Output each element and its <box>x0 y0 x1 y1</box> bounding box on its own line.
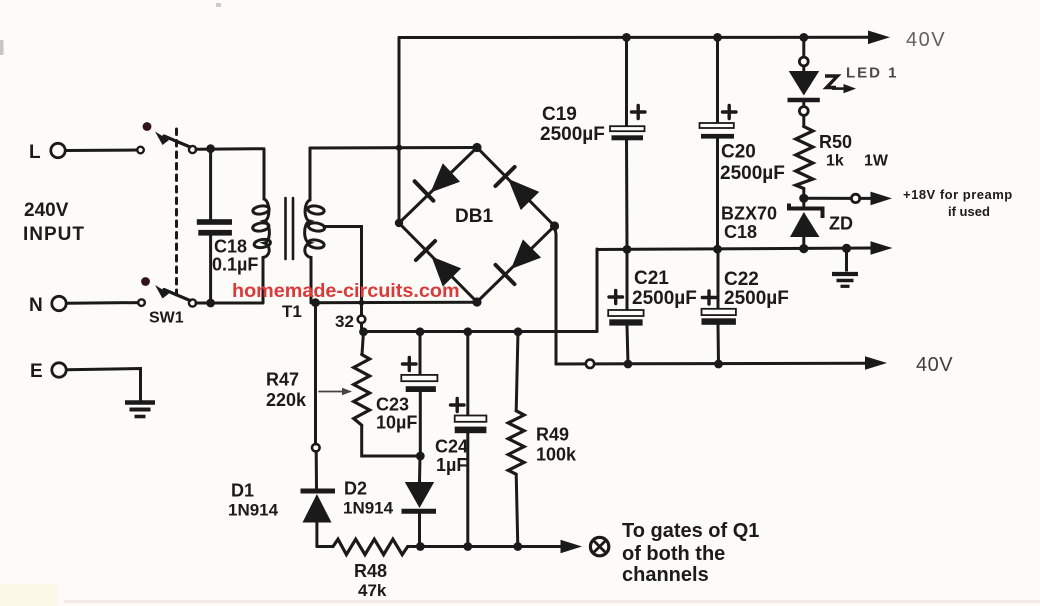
LED bottom terminal circle <box>799 107 808 116</box>
resistor R47 <box>266 327 421 456</box>
top rail 40V <box>399 36 869 39</box>
svg-text:channels: channels <box>622 564 709 586</box>
LED emission arrows <box>825 76 856 93</box>
node C18 bottom <box>206 299 215 308</box>
lower rail 40V <box>556 360 866 369</box>
capacitor C21 <box>608 250 697 365</box>
arrow output <box>561 540 583 554</box>
svg-text:C20: C20 <box>721 142 756 163</box>
switch SW1 pole L <box>137 122 196 153</box>
wire D1 branch <box>314 303 317 444</box>
label To gates of Q1 <box>622 520 759 586</box>
svg-text:0.1µF: 0.1µF <box>212 255 258 275</box>
wire crossing blob centre tap <box>359 300 365 306</box>
wire DC+ riser x399 <box>396 38 402 224</box>
capacitor C18 <box>197 149 259 303</box>
wire secondary bottom to bridge bottom <box>311 301 477 304</box>
svg-text:D1: D1 <box>231 481 254 501</box>
svg-text:C21: C21 <box>634 268 669 289</box>
svg-text:2500µF: 2500µF <box>724 288 789 309</box>
zener diode ZD BZX70 <box>721 204 853 250</box>
svg-text:ZD: ZD <box>829 214 853 234</box>
LED LED1 <box>788 65 899 107</box>
svg-text:LED 1: LED 1 <box>846 65 899 82</box>
capacitor C24 <box>435 327 486 546</box>
svg-text:1N914: 1N914 <box>228 501 279 520</box>
bridge diode top-right <box>495 167 539 210</box>
svg-text:2500µF: 2500µF <box>632 288 697 309</box>
svg-text:of both the: of both the <box>622 543 725 565</box>
svg-text:D2: D2 <box>344 479 367 499</box>
svg-text:1µF: 1µF <box>436 455 467 475</box>
terminal circle lower rail <box>586 360 594 368</box>
svg-text:homemade-circuits.com: homemade-circuits.com <box>232 280 460 302</box>
diode D1 <box>228 452 335 547</box>
switch linkage dashed <box>175 129 178 295</box>
svg-text:1N914: 1N914 <box>343 499 394 518</box>
LED1 branch wire <box>802 38 805 58</box>
+18V terminal circle <box>851 194 859 202</box>
diode D2 <box>343 456 436 547</box>
ground (E) <box>125 403 155 417</box>
svg-text:40V: 40V <box>906 29 946 51</box>
ground (0V rail) <box>832 248 858 286</box>
svg-text:240V: 240V <box>24 200 69 221</box>
node zener mid rail <box>799 244 808 253</box>
svg-text:220k: 220k <box>266 390 307 410</box>
svg-text:C18: C18 <box>724 222 757 242</box>
label 240V INPUT <box>23 200 85 245</box>
wire N to switch <box>67 301 139 305</box>
bridge diode bottom-left <box>416 241 461 287</box>
output terminal circle-X <box>590 537 608 555</box>
arrow R47 pointer <box>319 388 352 396</box>
capacitor C23 <box>376 327 437 460</box>
svg-text:L: L <box>29 142 41 163</box>
svg-text:47k: 47k <box>358 581 387 600</box>
svg-text:C24: C24 <box>435 437 468 457</box>
wire DC- drop x556 <box>555 226 557 364</box>
resistor R50 <box>796 115 889 206</box>
wire node32 to rail <box>362 323 598 332</box>
node 32 terminal <box>335 312 365 331</box>
svg-text:E: E <box>30 361 43 382</box>
svg-text:40V: 40V <box>916 354 953 376</box>
svg-text:T1: T1 <box>282 302 302 321</box>
bridge diode bottom-right <box>496 239 542 284</box>
secondary centre tap wire <box>324 227 362 316</box>
capacitor C20 <box>700 38 785 250</box>
+18V arrow <box>860 192 892 206</box>
svg-text:if used: if used <box>948 204 990 219</box>
transformer T1 secondary <box>305 148 326 303</box>
capacitor C19 <box>540 38 645 250</box>
terminal E <box>30 361 66 382</box>
+18V tap wire <box>804 197 850 200</box>
LED1 top terminal circle <box>799 57 808 66</box>
svg-text:C18: C18 <box>214 237 247 257</box>
svg-text:+18V for preamp: +18V for preamp <box>903 187 1013 202</box>
svg-text:2500µF: 2500µF <box>720 163 785 184</box>
svg-text:1k: 1k <box>826 153 844 170</box>
svg-text:BZX70: BZX70 <box>721 204 777 224</box>
switch SW1 pole N <box>138 277 196 326</box>
node C18 top <box>206 144 215 153</box>
output wire to gates <box>408 542 562 551</box>
arrow top rail <box>868 31 890 45</box>
svg-text:DB1: DB1 <box>455 206 493 227</box>
node mid rail x717 <box>713 245 722 254</box>
wire E to ground <box>67 369 141 401</box>
node top rail x717 <box>713 33 722 42</box>
node ground tap <box>842 244 851 253</box>
middle rail 0V <box>597 248 871 250</box>
label +18V for preamp <box>903 187 1013 219</box>
label 40V bottom <box>916 354 953 376</box>
transformer core <box>286 198 294 259</box>
wire switch to C18 top node <box>196 147 263 151</box>
arrow middle rail <box>871 241 893 255</box>
wire switch N to primary bottom <box>196 302 263 305</box>
node top rail x627 <box>622 33 631 42</box>
svg-text:C22: C22 <box>724 269 759 290</box>
svg-text:C23: C23 <box>376 395 409 415</box>
node mid rail x627 <box>623 245 632 254</box>
svg-text:INPUT: INPUT <box>23 224 85 245</box>
svg-text:R49: R49 <box>536 425 569 445</box>
terminal N <box>29 295 66 316</box>
svg-text:R48: R48 <box>354 561 387 581</box>
arrow lower rail <box>865 356 887 370</box>
node top rail x803 <box>799 33 808 42</box>
capacitor C22 <box>702 250 789 365</box>
node secondary bottom <box>311 298 320 307</box>
svg-text:SW1: SW1 <box>149 310 184 327</box>
wire secondary top to bridge <box>310 146 477 150</box>
svg-text:100k: 100k <box>536 445 577 465</box>
resistor R49 <box>508 327 577 546</box>
svg-text:R47: R47 <box>266 370 299 390</box>
bridge rectifier DB1 frame <box>395 143 559 307</box>
terminal circle on D1 wire <box>312 444 320 452</box>
svg-text:To gates of Q1: To gates of Q1 <box>622 520 759 542</box>
watermark <box>232 280 460 302</box>
svg-text:N: N <box>29 295 43 316</box>
svg-text:32: 32 <box>335 312 354 331</box>
label 40V top <box>906 29 946 51</box>
resistor R48 <box>317 539 408 600</box>
vertical link x597 <box>596 249 599 332</box>
svg-text:1W: 1W <box>864 153 889 170</box>
terminal L <box>29 142 65 163</box>
bridge diode top-left <box>415 163 460 201</box>
svg-text:R50: R50 <box>819 132 852 152</box>
node R50 zener <box>799 194 808 203</box>
svg-text:10µF: 10µF <box>376 413 417 433</box>
svg-text:C19: C19 <box>542 104 577 125</box>
transformer T1 primary <box>252 149 302 321</box>
svg-text:2500µF: 2500µF <box>540 124 605 145</box>
wire L to switch <box>66 149 138 153</box>
